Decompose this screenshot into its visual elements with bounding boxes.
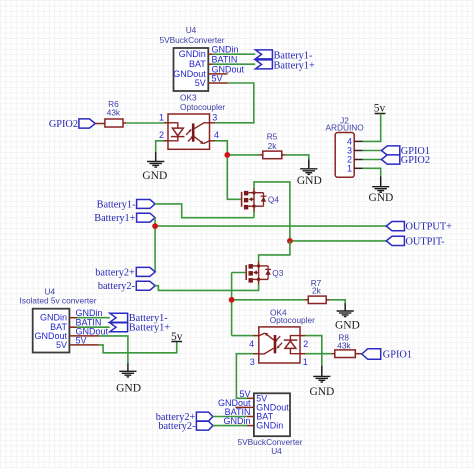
svg-text:BAT: BAT	[189, 59, 206, 69]
transistor Q4 body diode	[261, 193, 267, 207]
optocoupler OK3 LED cathode bar	[171, 136, 185, 138]
optocoupler OK4 LED cathode link	[290, 336, 300, 341]
wire OK4 pin 3 to bottom converter 5V	[236, 354, 253, 399]
svg-text:GNDin: GNDin	[256, 421, 283, 431]
wire junction to R5	[227, 154, 259, 156]
optocoupler OK3 collector line	[195, 123, 210, 129]
converter U4 (top) body	[174, 48, 209, 91]
resistor R8 left pin	[332, 353, 335, 355]
wire GNDout to ground (isolated)	[99, 336, 128, 364]
resistor R7 left pin	[305, 299, 308, 301]
svg-text:2: 2	[303, 339, 308, 349]
converter U4 (isolated) pin GNDin	[69, 317, 77, 319]
wire GNDin to Battery1- port	[212, 53, 255, 55]
svg-text:GND: GND	[368, 192, 393, 204]
svg-text:GND: GND	[297, 175, 322, 187]
port Battery1- (mid)	[137, 200, 155, 209]
converter U4 (bottom) pin GNDin	[247, 425, 254, 427]
svg-text:5v: 5v	[374, 103, 386, 115]
optocoupler OK3 LED anode link	[168, 123, 178, 128]
wire Q4 source down	[253, 212, 255, 218]
optocoupler OK4 LED triangle	[285, 341, 296, 349]
wire gate net to R7	[232, 299, 305, 301]
svg-text:1: 1	[159, 112, 164, 122]
svg-text:U4: U4	[271, 446, 282, 456]
optocoupler OK4 light arrow 2	[274, 336, 280, 342]
port battery2+ (bottom)	[196, 412, 213, 421]
resistor R7	[308, 296, 326, 303]
optocoupler OK4 LED anode link	[290, 348, 300, 353]
header J2 pin 2	[354, 159, 362, 161]
svg-text:4: 4	[249, 339, 254, 349]
transistor Q4 source pin	[253, 206, 255, 212]
transistor Q3 channel contact squares	[249, 264, 253, 283]
svg-text:Q3: Q3	[272, 268, 283, 278]
power 5v bar at J2	[375, 113, 386, 115]
wire GNDin to Battery1- port (isolated)	[77, 317, 110, 319]
svg-text:ARDUINO: ARDUINO	[325, 123, 364, 133]
header J2 pin 3	[354, 150, 362, 152]
transistor Q3 drain rail	[253, 265, 268, 267]
ground at OK3 pin 2	[147, 162, 164, 168]
wire battery2- to GNDin (bottom)	[213, 425, 247, 427]
ground at isolated converter	[119, 371, 136, 377]
optocoupler OK4 phototransistor bar	[274, 335, 277, 353]
wire J2 pin 1 to ground	[363, 168, 381, 177]
svg-text:Battery1-: Battery1-	[97, 199, 136, 210]
svg-text:GNDin: GNDin	[76, 308, 103, 318]
svg-text:1: 1	[347, 164, 352, 174]
svg-text:GND: GND	[335, 319, 360, 331]
port Battery1+ (isolated)	[110, 323, 128, 332]
resistor R6 right pin	[123, 122, 126, 124]
svg-text:5VBuckConverter: 5VBuckConverter	[237, 437, 302, 447]
svg-text:5VBuckConverter: 5VBuckConverter	[159, 35, 224, 45]
port battery2- (bottom)	[196, 421, 213, 430]
wire battery2- to Q3 source	[155, 284, 258, 290]
svg-text:43k: 43k	[337, 341, 351, 351]
transistor Q3 body diode	[265, 266, 271, 280]
converter U4 (isolated) pin GNDout	[69, 335, 99, 337]
ground at J2	[372, 187, 389, 193]
svg-text:Isolated 5v converter: Isolated 5v converter	[20, 296, 97, 306]
port Battery1- (top)	[255, 50, 272, 59]
svg-text:3: 3	[250, 357, 255, 367]
optocoupler OK3 light arrow 1	[186, 129, 192, 135]
wire 5V to OK3 pin 3	[215, 83, 254, 123]
transistor Q3 source tie	[258, 266, 260, 280]
wire J2 pin 2 to GPIO2 port	[363, 159, 382, 161]
svg-text:2k: 2k	[312, 286, 322, 296]
transistor Q4 body arrow	[249, 197, 255, 201]
port OUTPIT-	[386, 236, 404, 245]
wire 5V to 5v power (isolated)	[99, 342, 177, 353]
svg-text:Optocoupler: Optocoupler	[180, 102, 225, 112]
optocoupler OK4 body	[259, 327, 300, 363]
wire Q4 drain to OUTPIT- junction	[254, 182, 290, 241]
junction node gate net	[229, 297, 235, 303]
svg-text:GPIO1: GPIO1	[383, 350, 412, 361]
optocoupler OK3 pin 2 stub	[164, 140, 168, 142]
svg-text:GNDin: GNDin	[212, 45, 239, 55]
resistor R6	[105, 119, 123, 127]
optocoupler OK3 LED cathode link	[168, 137, 178, 141]
svg-text:OUTPUT+: OUTPUT+	[406, 222, 453, 233]
optocoupler OK3 LED triangle	[172, 128, 183, 136]
port GPIO2 (left)	[79, 119, 95, 128]
svg-text:GND: GND	[309, 386, 334, 398]
wire 5v to J2 pin 4	[363, 114, 381, 142]
junction node Battery1+ bus	[152, 223, 158, 229]
port Battery1- (isolated)	[110, 313, 128, 322]
resistor R8	[335, 350, 356, 358]
junction node at R5 branch	[224, 152, 230, 158]
header J2 pin 4	[354, 140, 362, 142]
wire R5 to ground	[285, 155, 309, 160]
ground at OK4 stem	[321, 366, 323, 376]
svg-text:4: 4	[214, 130, 219, 140]
svg-text:battery2-: battery2-	[158, 421, 196, 432]
optocoupler OK3 pin 4 stub	[210, 140, 216, 142]
power 5v bar (isolated)	[171, 341, 182, 343]
svg-text:GNDin: GNDin	[40, 313, 67, 323]
port GPIO1 at J2	[381, 146, 399, 155]
transistor Q4 source rail	[248, 205, 263, 207]
wire junction down to Q3 drain	[259, 241, 290, 262]
wire OUTPUT+ bus	[155, 225, 386, 227]
transistor Q4 drain rail	[248, 192, 263, 194]
wire J2 pin 3 to GPIO1 port	[363, 150, 382, 152]
svg-text:2: 2	[159, 130, 164, 140]
transistor Q3 gate bar	[245, 265, 247, 280]
ground at R7 stem	[344, 304, 346, 312]
wire battery2+ to BAT (bottom)	[213, 416, 247, 418]
transistor Q4 channel contact squares	[244, 191, 248, 210]
converter U4 (top) pin GNDin	[208, 53, 212, 55]
svg-text:Battery1+: Battery1+	[129, 323, 170, 334]
converter U4 (top) pin BAT	[208, 63, 212, 65]
svg-text:3: 3	[212, 112, 217, 122]
converter U4 (top) pin 5V	[208, 82, 227, 84]
optocoupler OK4 LED cathode bar	[284, 339, 298, 341]
ground at R5	[300, 169, 317, 175]
wire OK4 pin 4 from gate net	[232, 335, 253, 337]
ground at R5 stem	[308, 160, 310, 169]
wire BATIN to Battery1+ port (isolated)	[77, 326, 110, 328]
transistor Q3 source rail	[253, 278, 268, 280]
port GPIO2 at J2	[381, 155, 399, 164]
converter U4 (bottom) pin 5V	[247, 397, 254, 399]
svg-text:GNDin: GNDin	[179, 49, 206, 59]
svg-text:U4: U4	[186, 25, 197, 35]
svg-text:battery2-: battery2-	[98, 281, 136, 292]
converter U4 (isolated) body	[33, 309, 70, 353]
optocoupler OK3 pin 3 stub	[210, 122, 216, 124]
svg-text:5V: 5V	[212, 74, 223, 84]
optocoupler OK4 pin 1 stub	[300, 353, 306, 355]
converter U4 (bottom) body	[254, 393, 290, 436]
svg-text:43k: 43k	[107, 108, 121, 118]
svg-text:OK3: OK3	[180, 93, 197, 103]
header J2 body	[335, 133, 354, 178]
converter U4 (isolated) pin BAT	[69, 326, 77, 328]
resistor R5 right pin	[282, 154, 285, 156]
wire Battery1- to Q4 source	[155, 204, 254, 218]
transistor Q3 body arrow	[253, 270, 259, 274]
svg-text:1: 1	[303, 357, 308, 367]
ground at R7	[337, 311, 354, 317]
header J2 pin 1	[354, 167, 362, 169]
transistor Q4 gate bar	[241, 192, 243, 207]
junction node OUTPIT-	[287, 238, 293, 244]
wire OK4 pin 2 to ground	[306, 336, 322, 367]
converter U4 (isolated) pin 5V	[69, 344, 99, 346]
ground at isolated converter stem	[127, 364, 129, 372]
wire Battery1+ down to battery2+	[154, 218, 156, 272]
resistor R8 right pin	[355, 353, 362, 355]
ground at OK4	[313, 376, 330, 382]
svg-text:GND: GND	[116, 383, 141, 395]
optocoupler OK4 pin 2 stub	[300, 335, 306, 337]
optocoupler OK4 light arrow 1	[276, 343, 282, 349]
transistor Q4 source tie	[253, 193, 255, 207]
resistor R5	[263, 151, 282, 159]
optocoupler OK4 pin 4 stub	[253, 335, 259, 337]
converter U4 (top) pin GNDout	[208, 73, 227, 75]
svg-text:GPIO2: GPIO2	[49, 119, 78, 130]
svg-text:2k: 2k	[268, 141, 278, 151]
transistor Q3 terminal junctions	[257, 265, 260, 281]
svg-text:5V: 5V	[76, 335, 87, 345]
svg-text:Q4: Q4	[268, 195, 279, 205]
transistor Q3 drain pin	[258, 261, 260, 266]
converter U4 (bottom) pin GNDout	[236, 406, 254, 408]
svg-text:Battery1+: Battery1+	[94, 213, 135, 224]
port battery2- (mid)	[136, 281, 155, 290]
optocoupler OK3 pin 1 stub	[164, 122, 168, 124]
transistor Q4 drain pin	[253, 188, 255, 193]
svg-text:Battery1+: Battery1+	[274, 61, 315, 72]
optocoupler OK3 emitter line with arrow	[195, 137, 210, 144]
wire OK4 pin 1 to R8	[306, 353, 332, 355]
ground at OK3 pin 2 stem	[155, 152, 157, 162]
wire OK3 pin 2 to ground	[156, 141, 164, 153]
converter U4 (bottom) pin BAT	[247, 416, 254, 418]
optocoupler OK4 collector line	[259, 348, 274, 354]
svg-text:R5: R5	[267, 132, 278, 142]
wire OK3 pin 4 to Q4 gate	[215, 141, 241, 200]
svg-text:battery2+: battery2+	[95, 267, 135, 278]
wire Q3 gate net vertical	[232, 273, 246, 336]
port GPIO1 (bottom)	[362, 349, 381, 360]
svg-text:BATIN: BATIN	[212, 55, 238, 65]
port battery2+ (mid)	[136, 267, 155, 276]
wire OUTPIT- bus	[290, 240, 386, 242]
optocoupler OK3 phototransistor bar	[192, 123, 195, 141]
svg-text:GNDin: GNDin	[223, 416, 250, 426]
svg-text:GPIO2: GPIO2	[401, 155, 430, 166]
svg-text:Optocoupler: Optocoupler	[270, 315, 315, 325]
optocoupler OK4 emitter line with arrow	[259, 333, 274, 340]
transistor Q4 terminal junctions	[253, 191, 256, 207]
resistor R7 right pin	[326, 299, 329, 301]
port OUTPUT+	[386, 222, 404, 231]
wire BATIN to Battery1+ port	[212, 63, 255, 65]
wire R6 to OK3 pin 1	[126, 122, 164, 124]
optocoupler OK3 body	[168, 114, 210, 149]
svg-text:GND: GND	[142, 170, 167, 182]
optocoupler OK4 pin 3 stub	[253, 353, 259, 355]
resistor R5 left pin	[260, 154, 263, 156]
svg-text:OUTPIT-: OUTPIT-	[406, 237, 446, 248]
ground at J2 stem	[380, 177, 382, 187]
svg-text:5V: 5V	[56, 340, 67, 350]
svg-text:5V: 5V	[195, 78, 206, 88]
wire R7 to ground	[329, 300, 345, 304]
port Battery1+ (top)	[255, 60, 272, 69]
optocoupler OK3 light arrow 2	[188, 135, 194, 141]
wire GPIO2 to R6	[95, 123, 105, 125]
port Battery1+ (mid)	[137, 213, 155, 222]
transistor Q3 source pin	[258, 279, 260, 284]
